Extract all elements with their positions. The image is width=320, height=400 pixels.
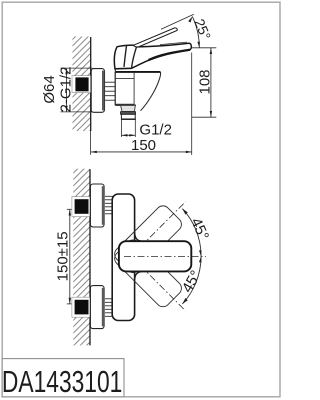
arc middle arrows at centerline [199,250,201,256]
arc end arrows [182,209,188,215]
dim G1/2 outlet line and arrows [122,134,136,136]
horizontal centerline [124,255,206,257]
handle centre position (plan) [119,241,191,271]
cartridge collar [115,66,133,72]
150±15 extension lines [67,208,77,210]
concealed fitting black square (top view) [75,77,88,91]
faucet body (plan) [112,194,134,321]
grip underside thick stroke [149,50,191,60]
wall hatch (bottom view) [73,169,90,346]
dim 25deg lever line [161,14,194,29]
outlet tube G1/2 [121,114,135,119]
svg-text:2-G1/2: 2-G1/2 [58,67,75,113]
upper wall recess [72,197,90,217]
G1/2 extension lines [121,120,123,137]
diagonal centerline lower [131,256,186,311]
dim Ø64 line [66,68,68,112]
wall face line (top view) [90,37,92,131]
body-handle fillet upper [135,233,142,242]
svg-text:150±15: 150±15 [55,231,72,281]
upper threads (plan) [105,196,115,214]
title box [2,359,124,397]
right extension vertical (handle tip) [191,53,193,156]
body-handle fillet lower [135,271,142,280]
upper fitting black square [75,199,89,214]
wall face line (bottom view) [89,169,91,345]
lever blade sliver [134,28,178,47]
upper escutcheon (plan) [90,184,104,227]
body inner vertical line [133,72,135,105]
rotated handle position lower [112,237,185,310]
deck edge thick [115,71,160,73]
outlet collar dark [120,112,135,115]
svg-text:25°: 25° [191,16,214,42]
lower escutcheon (plan) [90,286,104,329]
extension lines Ø64 [61,67,93,69]
body right curve [141,72,161,111]
body bottom lines [115,104,136,106]
rotated handle position upper [112,203,185,276]
svg-text:150: 150 [131,137,156,154]
top extension line (handle tip level) [191,47,216,49]
dim 108 line [210,48,212,117]
grip inner highlight line [160,42,187,45]
wall recess (white) [72,76,91,93]
bottom extension line (outlet level) [192,116,217,118]
svg-text:G1/2: G1/2 [139,122,172,139]
dim 150 line [91,151,192,153]
svg-text:108: 108 [197,69,214,94]
lower fitting black square [75,300,89,315]
faucet body (side view) [115,72,160,111]
diagonal centerline upper [131,202,186,257]
extension line for 150 (left, wall face extended) [90,131,92,155]
svg-text:Ø64: Ø64 [41,75,58,103]
dim Ø64 arrows [65,68,67,74]
wall hatch (top view) [73,37,91,132]
lower threads (plan) [105,299,115,317]
dim 25deg arc [192,16,199,47]
threaded nipple (top view) [105,82,116,100]
outlet neck taper [121,105,136,111]
lever facet curve 2 [132,47,137,67]
body left edge [114,72,116,105]
lever handle outline (side view) [114,43,191,69]
dim 150±15 line [69,209,71,304]
arc arrows 25deg [197,42,200,48]
deck second line [115,77,134,79]
svg-text:DA1433101: DA1433101 [2,365,122,399]
lower wall recess [72,297,90,317]
escutcheon thick edge [102,71,104,111]
escutcheon flange (top view) [91,69,104,113]
lever facet curve 1 [124,46,127,67]
45deg arc [182,209,201,304]
